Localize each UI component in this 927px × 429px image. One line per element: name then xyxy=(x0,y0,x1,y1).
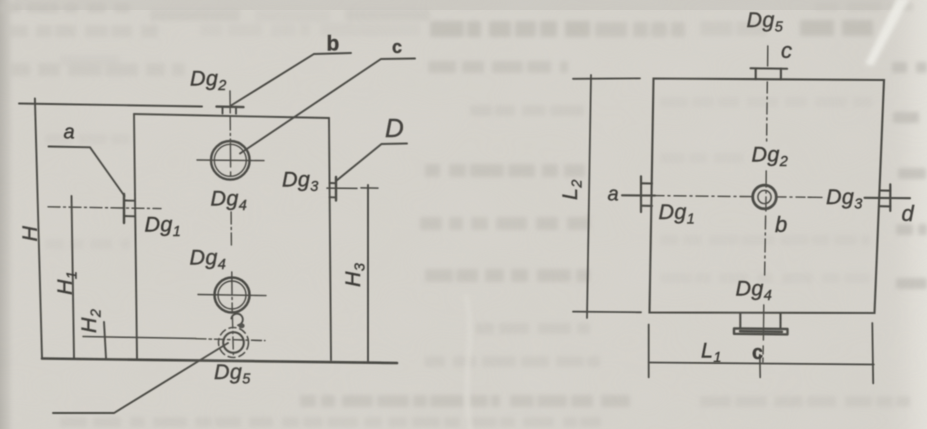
centreline of Dg1 (dash-dot) xyxy=(48,207,161,209)
nozzle Dg5 stub right xyxy=(780,69,782,80)
dashed flange circle of Dg5 xyxy=(219,328,249,358)
dimension line H3 xyxy=(367,185,369,362)
dimension line H2 xyxy=(104,322,106,358)
circle Dg4 upper xyxy=(211,141,250,180)
nozzle Dg3 stub lower xyxy=(330,196,337,198)
nozzle Dg1 stub upper xyxy=(124,200,135,202)
nozzle Dg1 flange bar (left) xyxy=(640,176,642,212)
extension line for H2 xyxy=(83,337,196,339)
vertical fold crease bottom-middle xyxy=(464,295,473,429)
nozzle Dg2 flange bar xyxy=(217,105,244,108)
centreline of Dg5 (dash-dot) xyxy=(196,339,265,341)
nozzle Dg2 stub left xyxy=(222,107,224,114)
horizontal centreline (dash-dot, gap at Dg3 label) xyxy=(652,196,751,197)
nozzle Dg1 stub upper xyxy=(641,182,652,184)
vertical centreline through circles (dash-dot, gaps at labels) xyxy=(229,91,231,113)
dimension line H1 xyxy=(72,196,75,358)
leader a xyxy=(49,147,125,197)
extension tick L1 left xyxy=(648,325,650,378)
nozzle Dg1 stub lower xyxy=(641,205,652,207)
nozzle Dg1 stub lower xyxy=(124,215,135,217)
tank left edge xyxy=(134,114,137,358)
circle Dg5 xyxy=(223,332,244,353)
nozzle Dg5 flange bar (top) xyxy=(751,67,788,69)
centreline of Dg3 xyxy=(327,187,357,189)
centreline of circle Dg4 upper xyxy=(197,159,264,162)
centreline of circle Dg4 lower xyxy=(198,295,266,296)
dimension line L1 xyxy=(649,363,874,365)
tank top edge xyxy=(134,114,329,118)
extension line L2 top xyxy=(573,77,640,79)
centreline tick below c xyxy=(759,355,761,378)
circle Dg2 (top view) xyxy=(753,185,777,209)
leader a (solid) xyxy=(622,194,655,196)
nozzle Dg4 stub left (bottom) xyxy=(739,313,741,328)
leader b xyxy=(231,53,351,106)
dimension line H xyxy=(35,99,42,359)
nozzle Dg4 stub right (bottom) xyxy=(779,313,781,328)
vertical centreline (dash-dot, gaps at labels) xyxy=(767,46,769,66)
crease top-right xyxy=(865,0,910,66)
nozzle Dg3 flange bar xyxy=(335,177,337,201)
nozzle Dg3 stub upper xyxy=(330,182,337,184)
tank bottom edge xyxy=(42,359,397,364)
nozzle Dg5 stub left xyxy=(755,68,757,79)
nozzle Dg1 flange bar xyxy=(123,194,125,223)
tank right edge xyxy=(329,118,331,360)
dimension line L2 xyxy=(587,75,591,318)
leader c xyxy=(240,59,415,154)
nozzle Dg4 flange bar (bottom) xyxy=(734,328,788,334)
leader D xyxy=(336,144,407,182)
nozzle Dg3 stub lower xyxy=(880,205,891,207)
nozzle Dg2 stub right xyxy=(235,107,237,114)
square outline xyxy=(650,79,885,314)
nozzle Dg3 stub upper xyxy=(880,189,891,191)
circle Dg4 lower xyxy=(215,278,250,313)
extension tick L1 right xyxy=(871,323,874,383)
extension line at top of Dg2 nozzle xyxy=(19,104,202,107)
leader d (solid) xyxy=(865,197,911,199)
extension tick for H3 top xyxy=(361,187,378,189)
small hook between circles xyxy=(231,314,243,326)
nozzle Dg3 flange bar (right) xyxy=(889,184,891,211)
leader to Dg5 xyxy=(53,343,228,413)
extension line L2 bottom xyxy=(573,311,641,314)
